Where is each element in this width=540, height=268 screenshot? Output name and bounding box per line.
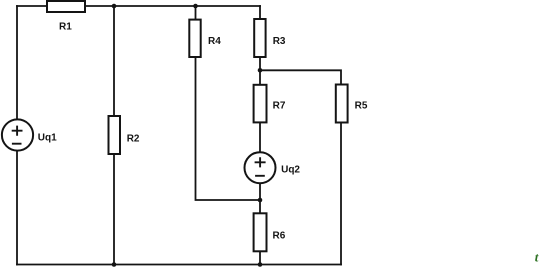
wire R4 column lower with elbow to Uq2 bottom node [196,57,261,200]
wire node B to R6 top [259,200,261,213]
svg-text:Uq1: Uq1 [38,133,57,144]
svg-text:Uq2: Uq2 [281,164,300,175]
svg-text:R4: R4 [208,36,221,47]
wire left rail upper (top-left corner down to Uq1 top) [16,6,18,119]
svg-text:R1: R1 [59,22,72,33]
node junction bottom rail at R2 column [112,262,117,267]
voltage source Uq2 [245,152,301,183]
wire R6 bottom to bottom rail [259,251,261,264]
resistor R7 [254,85,286,123]
wire bottom rail [17,264,341,266]
wire Uq2 bottom to node B [259,183,261,200]
node junction on top rail at R4 column [193,4,198,9]
resistor R1 [47,1,85,33]
wire R2 column lower [113,154,115,265]
svg-text:R3: R3 [273,36,286,47]
resistor R6 [254,213,286,251]
svg-text:R7: R7 [273,101,286,112]
svg-text:R5: R5 [355,101,368,112]
svg-text:R6: R6 [273,231,286,242]
node junction on top rail at R2 column [112,4,117,9]
wire left rail lower (Uq1 bottom to bottom-left corner) [16,151,18,265]
resistor R2 [109,116,140,154]
wire R4 column upper [195,6,197,20]
wire R5 bottom down to bottom rail [340,123,342,265]
svg-text:R2: R2 [127,133,140,144]
wire top rail from left corner to R3 column [17,5,260,7]
node B junction below Uq2 [258,198,263,203]
wire node A to R5 top elbow [260,70,341,84]
wire R3 column upper (top rail corner down to R3) [259,6,261,19]
voltage source Uq1 [2,119,57,150]
wire R7 bottom to Uq2 top [259,122,261,152]
wire R3 bottom to node A [259,57,261,70]
wire R2 column upper [113,6,115,116]
resistor R5 [336,85,368,123]
resistor R4 [189,20,221,57]
resistor R3 [254,19,286,57]
wire node A to R7 top [259,70,261,85]
node A junction below R3 [258,68,263,73]
node junction bottom rail at R6 column [258,262,263,267]
svg-text:t: t [535,250,539,265]
